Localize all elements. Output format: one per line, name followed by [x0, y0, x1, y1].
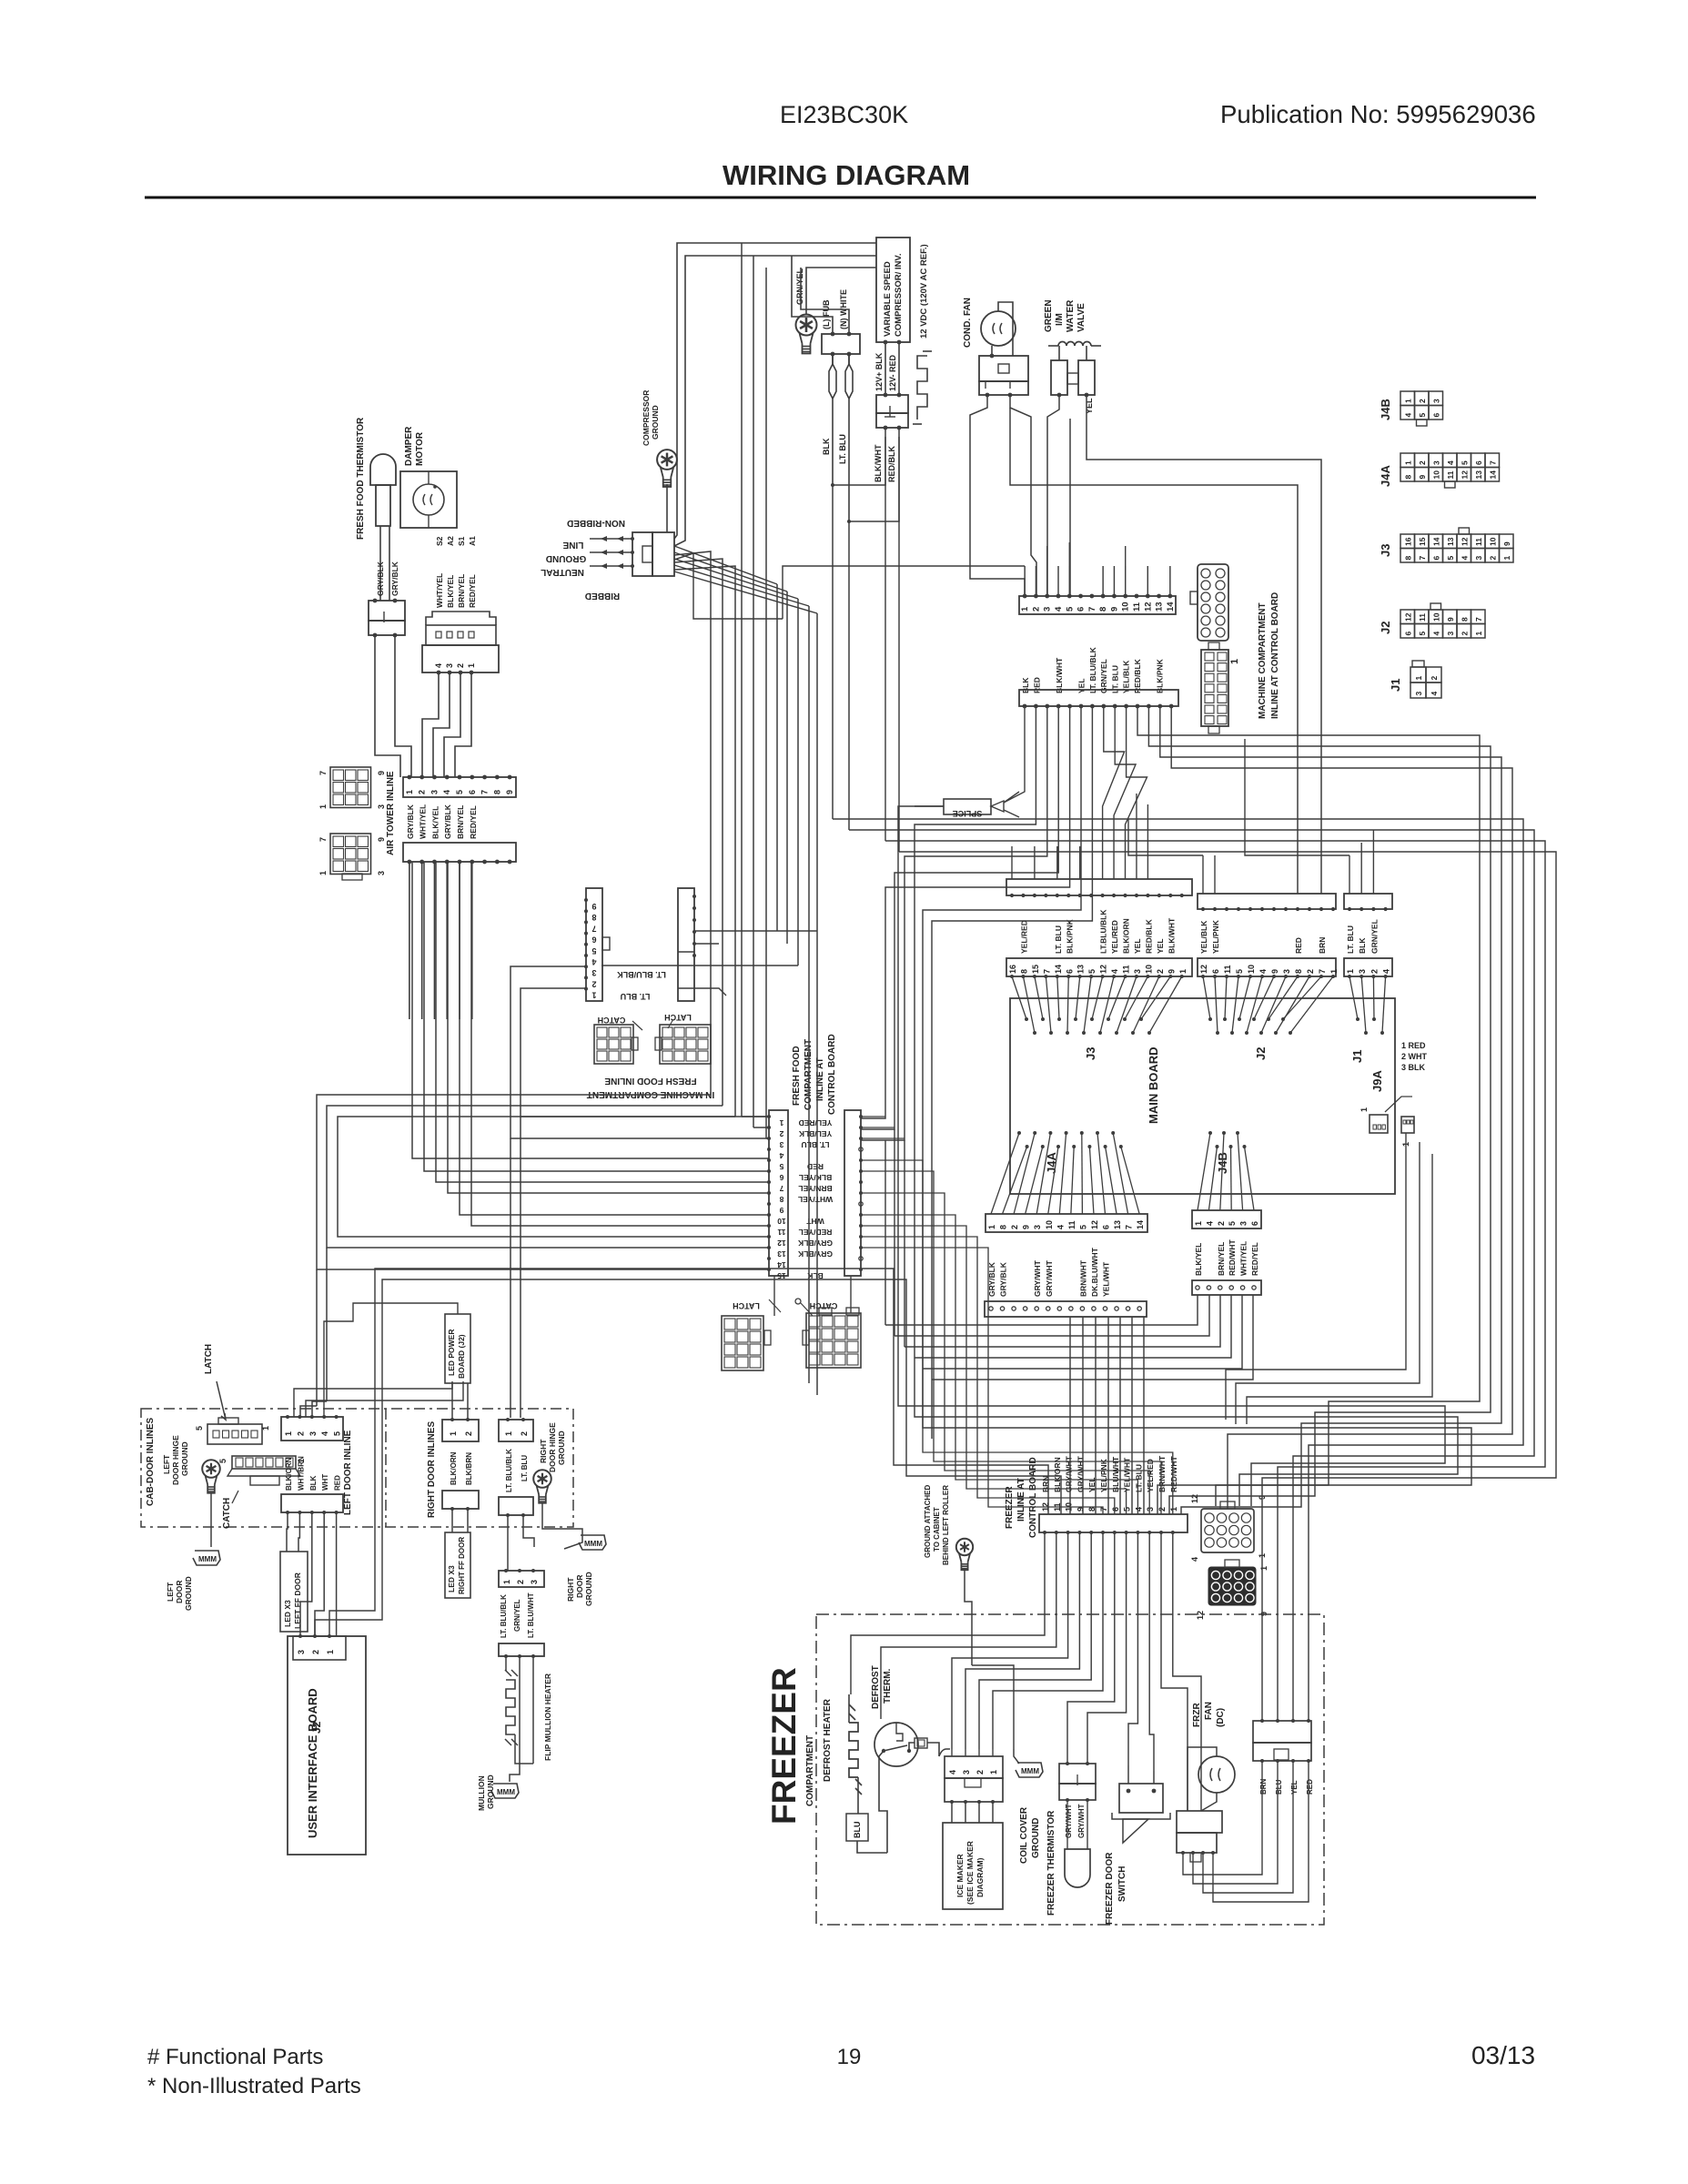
svg-text:GRY/WHT: GRY/WHT: [1065, 1804, 1073, 1838]
svg-text:GROUND: GROUND: [1031, 1818, 1041, 1858]
wire 14pin lower pin1 to splice: [1004, 706, 1025, 803]
svg-text:GROUND: GROUND: [486, 1774, 495, 1809]
svg-text:BLK: BLK: [1358, 937, 1367, 954]
freezer thermistor leads: [1066, 1800, 1068, 1849]
svg-text:11: 11: [1446, 470, 1455, 479]
svg-text:5: 5: [1446, 556, 1455, 561]
left door hinge ground lug: [202, 1460, 220, 1478]
freezer molex D dark: [1208, 1567, 1256, 1605]
frzr fan motor: [1198, 1756, 1235, 1793]
svg-text:RIGHT DOOR INLINES: RIGHT DOOR INLINES: [427, 1421, 437, 1518]
svg-text:3: 3: [1146, 1507, 1155, 1512]
svg-text:5: 5: [1235, 969, 1244, 974]
svg-text:13: 13: [1076, 965, 1086, 974]
molex connector air tower B: [330, 767, 371, 808]
J4B pin number strip: [1192, 1210, 1261, 1228]
svg-text:FRESH FOOD: FRESH FOOD: [792, 1046, 802, 1106]
svg-text:2: 2: [464, 1431, 473, 1436]
svg-text:9: 9: [1502, 541, 1511, 546]
svg-text:LATCH: LATCH: [204, 1344, 214, 1374]
svg-text:Publication No: 5995629036: Publication No: 5995629036: [1220, 100, 1536, 128]
svg-text:2: 2: [311, 1650, 320, 1654]
svg-text:BLK/ORN: BLK/ORN: [1122, 918, 1131, 954]
svg-text:12V+ BLK: 12V+ BLK: [874, 352, 884, 391]
frzr fan wires to connector: [1188, 1747, 1217, 1811]
svg-text:BRN/YEL: BRN/YEL: [457, 574, 466, 608]
svg-text:1: 1: [502, 1580, 511, 1584]
svg-text:8: 8: [1294, 969, 1303, 974]
svg-text:1: 1: [449, 1431, 458, 1436]
defrost therm leads: [879, 1751, 887, 1853]
svg-text:6: 6: [1250, 1221, 1259, 1226]
wire J1 inline feeds: [1349, 855, 1350, 894]
svg-text:5: 5: [779, 1162, 783, 1171]
svg-text:3: 3: [377, 871, 386, 875]
svg-text:7: 7: [1087, 607, 1097, 612]
svg-text:9: 9: [1022, 1225, 1031, 1229]
svg-text:LT. BLU: LT. BLU: [1134, 1464, 1143, 1492]
right hinge connector lower: [499, 1497, 533, 1515]
svg-text:RED/WHT: RED/WHT: [1228, 1239, 1237, 1276]
svg-text:INLINE AT CONTROL BOARD: INLINE AT CONTROL BOARD: [1270, 592, 1280, 719]
svg-text:J4A: J4A: [1379, 465, 1392, 487]
svg-text:GRY/BLK: GRY/BLK: [406, 804, 415, 839]
svg-text:GROUND ATTACHED: GROUND ATTACHED: [924, 1484, 932, 1558]
svg-text:9: 9: [591, 902, 596, 911]
svg-text:9: 9: [1076, 1507, 1085, 1512]
svg-text:LT.BLU/BLK: LT.BLU/BLK: [1099, 909, 1108, 954]
svg-text:1: 1: [504, 1431, 513, 1436]
svg-text:3: 3: [1033, 1225, 1042, 1229]
svg-text:BRN/YEL: BRN/YEL: [456, 805, 465, 839]
svg-text:6: 6: [591, 935, 596, 945]
svg-text:7: 7: [480, 790, 490, 794]
splice wires: [915, 805, 944, 807]
wire 14pin lower pins6-7 inner staircase: [923, 706, 1471, 1506]
svg-text:1: 1: [1329, 969, 1339, 974]
svg-text:J2: J2: [1254, 1047, 1268, 1060]
svg-text:4: 4: [1134, 1507, 1143, 1512]
svg-text:CATCH: CATCH: [810, 1301, 838, 1310]
flip mullion heater return wire: [532, 1656, 534, 1764]
wire bundle feeds to fresh food strip pins 1-3: [742, 1116, 769, 1117]
svg-text:7: 7: [1474, 617, 1483, 622]
fresh food 15-pin strip: [769, 1110, 788, 1276]
svg-text:1: 1: [1403, 460, 1412, 465]
right door hinge ground lug: [533, 1470, 551, 1488]
svg-text:DOOR HINGE: DOOR HINGE: [171, 1435, 180, 1485]
svg-text:2: 2: [516, 1580, 525, 1584]
svg-text:J3: J3: [1379, 544, 1392, 557]
svg-text:8: 8: [1460, 617, 1469, 622]
svg-text:4: 4: [948, 1770, 957, 1774]
svg-text:RIBBED: RIBBED: [585, 591, 620, 601]
user interface board: [288, 1636, 366, 1855]
svg-text:BRN/YEL: BRN/YEL: [798, 1184, 832, 1193]
svg-text:FLIP MULLION HEATER: FLIP MULLION HEATER: [543, 1673, 552, 1761]
svg-text:GRY/BLK: GRY/BLK: [376, 561, 385, 596]
svg-text:13: 13: [1155, 602, 1165, 612]
svg-text:DOOR HINGE: DOOR HINGE: [548, 1422, 557, 1472]
svg-text:2: 2: [1031, 607, 1041, 612]
svg-text:6: 6: [1065, 969, 1074, 974]
svg-text:YEL: YEL: [1290, 1780, 1299, 1795]
svg-text:4: 4: [320, 1431, 329, 1436]
svg-text:2: 2: [456, 663, 465, 668]
svg-text:11: 11: [1132, 602, 1142, 612]
J1 fan to board: [1349, 976, 1358, 1019]
svg-text:BLK/YEL: BLK/YEL: [1194, 1243, 1203, 1276]
wire right strip riser joins: [861, 1116, 885, 1117]
svg-text:GRY/BLK: GRY/BLK: [390, 561, 399, 596]
cond fan motor M1: [981, 311, 1016, 346]
svg-text:6: 6: [468, 790, 477, 794]
wire fresh food right strip east runs: [861, 1160, 1173, 1514]
J3 pin number strip: [1006, 958, 1192, 976]
J3 inline connector strip: [1006, 879, 1192, 895]
water valve body: [1051, 360, 1067, 395]
svg-text:4: 4: [442, 790, 451, 794]
svg-text:5: 5: [1087, 969, 1097, 974]
wire water valve feeds down: [1047, 395, 1059, 596]
svg-text:4: 4: [1205, 1221, 1214, 1226]
wire tall bundle diagonal fan from power box: [674, 546, 777, 584]
svg-text:YEL/WHT: YEL/WHT: [1123, 1457, 1132, 1492]
svg-text:5: 5: [1123, 1507, 1132, 1512]
svg-text:WHT/YEL: WHT/YEL: [798, 1195, 833, 1204]
wire J3 inline top feeds short: [1011, 846, 1013, 879]
svg-text:GROUND: GROUND: [557, 1431, 566, 1465]
svg-text:1: 1: [1403, 399, 1412, 403]
svg-text:8: 8: [1403, 556, 1412, 561]
dashed divider: [385, 1409, 387, 1527]
svg-text:2: 2: [1217, 1221, 1226, 1226]
svg-text:10: 10: [1144, 965, 1153, 974]
svg-text:1: 1: [405, 790, 414, 794]
ice maker connector: [945, 1756, 1003, 1778]
svg-text:7: 7: [318, 837, 328, 842]
svg-text:4: 4: [1403, 413, 1412, 418]
svg-text:GRN/YEL: GRN/YEL: [1099, 659, 1108, 693]
svg-text:MMM: MMM: [198, 1555, 217, 1563]
svg-text:1: 1: [326, 1650, 335, 1654]
wires left door inline to UI board: [287, 1512, 288, 1552]
svg-text:3: 3: [1446, 632, 1455, 636]
svg-text:12V- RED: 12V- RED: [888, 354, 897, 391]
svg-text:6: 6: [1211, 969, 1220, 974]
svg-text:6: 6: [1474, 460, 1483, 465]
water valve coil L1: [1058, 342, 1091, 347]
svg-text:4: 4: [1258, 969, 1268, 974]
svg-text:BLK/PNK: BLK/PNK: [1065, 918, 1074, 954]
svg-text:CATCH: CATCH: [598, 1016, 626, 1025]
air tower inline connector lower: [403, 843, 516, 862]
wire splice west tail: [898, 806, 1445, 1506]
svg-text:4: 4: [1430, 692, 1439, 696]
svg-text:S2: S2: [435, 536, 444, 546]
svg-text:3: 3: [1043, 607, 1053, 612]
svg-text:1: 1: [1229, 659, 1240, 664]
svg-text:BEHIND LEFT ROLLER: BEHIND LEFT ROLLER: [942, 1485, 950, 1565]
variable speed compressor U1: [876, 238, 910, 342]
svg-text:4: 4: [1446, 460, 1455, 465]
wire LT. BLU lead: [845, 354, 849, 521]
svg-text:LT. BLU: LT. BLU: [621, 992, 651, 1001]
svg-text:LT. BLU: LT. BLU: [838, 434, 847, 464]
svg-text:7: 7: [1125, 1225, 1134, 1229]
svg-text:19: 19: [837, 2045, 862, 2069]
svg-text:I/M: I/M: [1055, 313, 1065, 326]
wire bundle east laterals: [694, 930, 817, 932]
svg-text:SPLICE: SPLICE: [953, 809, 983, 818]
frzr fan connector: [1177, 1811, 1222, 1833]
svg-text:J3: J3: [1084, 1047, 1097, 1060]
svg-text:RED/YEL: RED/YEL: [1250, 1242, 1259, 1276]
svg-text:14: 14: [1488, 470, 1497, 480]
wire freezer strip drops into box: [851, 1532, 1045, 1694]
svg-text:2: 2: [591, 979, 596, 988]
left door ground small ground: [193, 1551, 220, 1565]
svg-text:11: 11: [1418, 613, 1427, 622]
svg-text:5: 5: [1418, 632, 1427, 636]
svg-text:GRN/YEL: GRN/YEL: [1370, 919, 1379, 954]
svg-text:BLK/BRN: BLK/BRN: [465, 1452, 473, 1485]
wire 14pin lower last pins east to J2: [1159, 706, 1161, 732]
svg-text:5: 5: [1228, 1221, 1237, 1226]
svg-text:GROUND: GROUND: [180, 1441, 189, 1476]
svg-text:GRY/BLK: GRY/BLK: [999, 1261, 1008, 1297]
svg-text:GRN/YEL: GRN/YEL: [513, 1599, 521, 1632]
mullion ground: [510, 1656, 520, 1782]
svg-text:1: 1: [318, 871, 328, 875]
svg-text:A2: A2: [446, 536, 455, 546]
svg-text:1: 1: [779, 1118, 783, 1127]
wire lug to power box: [666, 484, 668, 532]
svg-text:LT. BLU: LT. BLU: [1054, 925, 1063, 954]
svg-text:RED: RED: [1294, 937, 1303, 954]
svg-text:COMPRESSOR/ INV.: COMPRESSOR/ INV.: [894, 253, 904, 337]
wire BLK LT.BLU drops: [832, 485, 834, 819]
wire bundle west laterals to outer verticals: [317, 1095, 769, 1269]
svg-text:(DC): (DC): [1216, 1708, 1226, 1727]
right hinge connector upper: [499, 1420, 533, 1441]
svg-text:RED/WHT: RED/WHT: [1169, 1456, 1178, 1492]
LED X3 right FF door box: [445, 1532, 470, 1598]
svg-text:2: 2: [1488, 556, 1497, 561]
svg-text:3: 3: [530, 1580, 539, 1584]
svg-text:BLK/WHT: BLK/WHT: [1055, 657, 1064, 693]
svg-text:# Functional Parts: # Functional Parts: [147, 2045, 323, 2069]
svg-text:CATCH: CATCH: [222, 1498, 232, 1529]
svg-text:MULLION: MULLION: [477, 1775, 486, 1811]
svg-text:6: 6: [1431, 413, 1440, 418]
svg-text:VALVE: VALVE: [1076, 303, 1087, 332]
svg-text:BRN/WHT: BRN/WHT: [1157, 1455, 1167, 1492]
svg-text:(L) FUB: (L) FUB: [822, 299, 831, 329]
wire mid verticals east to J4B lower: [884, 1140, 886, 1325]
svg-text:BLK/ORN: BLK/ORN: [450, 1451, 458, 1485]
freezer thermistor bulb: [1065, 1849, 1090, 1887]
svg-text:14: 14: [1054, 965, 1063, 974]
svg-text:MACHINE COMPARTMENT: MACHINE COMPARTMENT: [1258, 602, 1268, 719]
svg-text:GREEN: GREEN: [1044, 299, 1054, 332]
wire 14pin lower to J3 inline strip: [1103, 706, 1125, 879]
svg-text:GRN/YEL: GRN/YEL: [795, 268, 804, 305]
power entry dashed leads: [590, 538, 632, 540]
svg-text:FREEZER: FREEZER: [765, 1667, 803, 1825]
svg-text:CONTROL BOARD: CONTROL BOARD: [827, 1034, 837, 1115]
svg-text:3: 3: [1431, 460, 1440, 465]
svg-text:(SEE ICE MAKER: (SEE ICE MAKER: [965, 1841, 975, 1905]
svg-text:3: 3: [1431, 399, 1440, 403]
svg-text:7: 7: [1418, 556, 1427, 561]
svg-text:DIAGRAM): DIAGRAM): [975, 1857, 985, 1897]
catch connector: [232, 1456, 296, 1469]
svg-text:12: 12: [1460, 470, 1469, 480]
svg-text:RIGHT: RIGHT: [539, 1439, 548, 1463]
svg-text:FRESH FOOD THERMISTOR: FRESH FOOD THERMISTOR: [356, 417, 366, 540]
fresh food thermistor connector: [369, 601, 405, 621]
svg-text:A1: A1: [468, 536, 477, 546]
svg-text:RED: RED: [334, 1475, 342, 1491]
J4B fan from board: [1208, 1131, 1212, 1135]
svg-text:RED: RED: [1306, 1779, 1314, 1795]
svg-text:1: 1: [1359, 1107, 1369, 1112]
svg-text:9: 9: [1446, 617, 1455, 622]
fresh food right dotted strip: [844, 1110, 861, 1276]
svg-text:NON-RIBBED: NON-RIBBED: [567, 518, 625, 528]
svg-text:WHT/YEL: WHT/YEL: [419, 804, 428, 839]
fresh food thermistor RT1: [370, 454, 396, 485]
svg-text:3: 3: [308, 1431, 318, 1436]
J4A fan from board: [1017, 1131, 1021, 1135]
UI board J2 connector: [293, 1636, 346, 1660]
svg-text:BRN/WHT: BRN/WHT: [1078, 1259, 1087, 1297]
svg-text:DEFROST: DEFROST: [871, 1665, 881, 1709]
svg-text:1: 1: [284, 1431, 293, 1436]
svg-text:1: 1: [1474, 632, 1483, 636]
svg-text:DEFROST HEATER: DEFROST HEATER: [823, 1698, 833, 1782]
svg-text:7: 7: [591, 924, 596, 933]
J2 fan to board: [1203, 976, 1210, 1019]
svg-text:TO CABINET: TO CABINET: [933, 1507, 941, 1552]
svg-text:3: 3: [1358, 969, 1367, 974]
svg-text:15: 15: [1031, 965, 1040, 974]
svg-text:LT. BLU/BLK: LT. BLU/BLK: [1088, 646, 1097, 693]
svg-text:GRY/WHT: GRY/WHT: [1045, 1259, 1054, 1297]
svg-text:YEL/BLK: YEL/BLK: [1122, 660, 1131, 693]
J1 inline connector strip: [1344, 894, 1392, 909]
svg-text:9: 9: [377, 837, 386, 842]
svg-text:LT. BLU/BLK: LT. BLU/BLK: [500, 1594, 508, 1638]
svg-text:1: 1: [1259, 1566, 1269, 1571]
svg-text:12: 12: [1199, 965, 1208, 974]
svg-text:BLK/YEL: BLK/YEL: [446, 575, 455, 608]
svg-text:1: 1: [1169, 1507, 1178, 1512]
svg-text:MAIN BOARD: MAIN BOARD: [1147, 1047, 1160, 1125]
svg-text:3: 3: [1474, 556, 1483, 561]
svg-text:RED/BLK: RED/BLK: [1133, 658, 1142, 693]
machine compartment 14-pin connector lower: [1019, 690, 1178, 706]
J3 fan to board: [1012, 976, 1026, 1019]
svg-text:DOOR: DOOR: [175, 1581, 184, 1604]
svg-text:AIR TOWER INLINE: AIR TOWER INLINE: [386, 771, 396, 855]
svg-text:6: 6: [1102, 1225, 1111, 1229]
svg-text:YEL/BLK: YEL/BLK: [798, 1129, 832, 1138]
svg-text:1: 1: [318, 804, 328, 809]
right door ground small ground: [579, 1535, 606, 1550]
svg-text:3: 3: [591, 968, 596, 977]
wire L N box leads up: [792, 256, 833, 334]
svg-text:BLK/ORN: BLK/ORN: [285, 1457, 293, 1491]
wire cond fan to circle: [998, 302, 1013, 356]
wire 12V+ BLK: [884, 342, 886, 395]
svg-text:BLK/WHT: BLK/WHT: [1167, 917, 1176, 954]
wires right door inline: [451, 1383, 453, 1420]
power cord entry connector: [632, 532, 652, 576]
svg-text:LEFT: LEFT: [166, 1582, 175, 1602]
wire 14pin lower pin2 long drop: [915, 706, 1458, 1506]
svg-text:EI23BC30K: EI23BC30K: [780, 101, 908, 128]
svg-text:3: 3: [377, 804, 386, 809]
svg-text:LINE: LINE: [562, 540, 583, 550]
svg-text:1: 1: [1414, 676, 1423, 681]
catch molex lower left: [722, 1316, 763, 1370]
svg-text:3: 3: [297, 1650, 306, 1654]
svg-text:YEL/RED: YEL/RED: [1019, 920, 1028, 954]
svg-text:RED/YEL: RED/YEL: [469, 805, 478, 839]
svg-text:3: 3: [1282, 969, 1291, 974]
svg-text:4: 4: [1382, 969, 1391, 974]
svg-text:GRY/BLK: GRY/BLK: [443, 804, 452, 839]
svg-text:LT. BLU/BLK: LT. BLU/BLK: [617, 970, 666, 979]
svg-text:2: 2: [1010, 1225, 1019, 1229]
svg-text:3: 3: [779, 1140, 783, 1149]
right door inline connector upper: [442, 1420, 479, 1441]
svg-text:12: 12: [1403, 612, 1412, 622]
svg-text:RED/YEL: RED/YEL: [468, 574, 477, 608]
svg-text:1: 1: [467, 663, 476, 668]
svg-text:RIGHT: RIGHT: [566, 1577, 575, 1602]
wire power box fan to tall left bundle: [674, 551, 711, 555]
svg-text:5: 5: [195, 1426, 204, 1431]
svg-text:BLU: BLU: [1275, 1779, 1283, 1795]
cond fan leads: [986, 393, 990, 398]
svg-text:GROUND: GROUND: [584, 1572, 593, 1606]
svg-text:12: 12: [1460, 537, 1469, 546]
svg-text:YEL/WHT: YEL/WHT: [1102, 1261, 1111, 1297]
wire compressor 12V joins: [833, 428, 885, 485]
svg-text:LEFT: LEFT: [162, 1454, 171, 1474]
svg-text:RED/YEL: RED/YEL: [799, 1228, 833, 1237]
svg-text:4: 4: [1431, 632, 1440, 636]
vertical inline connector 9-pin: [586, 888, 602, 1001]
svg-text:2: 2: [1430, 676, 1439, 681]
machine compartment 14-pin connector upper: [1019, 596, 1176, 614]
svg-text:4: 4: [1054, 606, 1064, 612]
svg-text:16: 16: [1403, 537, 1412, 546]
svg-text:DOOR: DOOR: [575, 1575, 584, 1599]
svg-text:RIGHT FF DOOR: RIGHT FF DOOR: [458, 1537, 466, 1594]
svg-text:2: 2: [1460, 632, 1469, 636]
svg-text:5: 5: [591, 946, 596, 955]
wire air tower verticals to 15pin strip: [412, 862, 769, 1158]
svg-text:GRY/WHT: GRY/WHT: [1077, 1804, 1086, 1838]
svg-text:BLK/YEL: BLK/YEL: [430, 806, 440, 839]
svg-text:WHT/BRN: WHT/BRN: [297, 1456, 305, 1491]
svg-text:COND. FAN: COND. FAN: [963, 298, 973, 348]
svg-text:6: 6: [1431, 556, 1440, 561]
